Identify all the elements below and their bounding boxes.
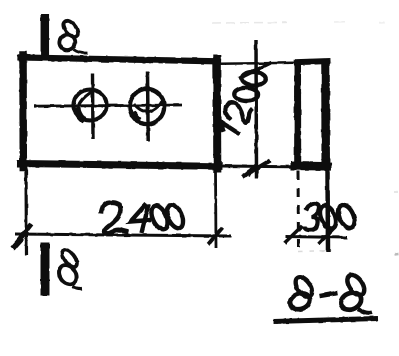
dimension 300: left tick — [285, 226, 303, 244]
hole circle 2 — [130, 89, 164, 124]
wire: side bottom edge — [291, 162, 332, 171]
centerline horizontal through holes — [34, 105, 182, 106]
centerline vertical hole 2 — [146, 72, 150, 142]
centerline vertical hole 1 — [91, 74, 95, 140]
wire: bottom edge — [21, 164, 220, 167]
dimension 300: line — [286, 237, 348, 238]
dimension 300: right tick — [319, 227, 336, 245]
scan noise above section label — [298, 192, 399, 255]
wire: top edge — [21, 58, 219, 62]
section cut mark bottom: label 8 — [55, 247, 82, 289]
dimension 1200: bottom tick — [242, 161, 270, 178]
dimension 1200: value label "1200" rotated — [215, 63, 271, 140]
wire: side right edge — [321, 59, 330, 164]
dimension 1200: line — [254, 40, 258, 179]
wire: left edge — [19, 55, 27, 168]
section label 8-8: second 8 — [338, 272, 372, 313]
section cut mark top: label 8 — [57, 18, 88, 53]
dimension 1200: bottom tick blob — [248, 166, 257, 175]
dimension 2400: extension left — [24, 170, 28, 256]
dimension 1200: extension top — [219, 63, 294, 64]
dimension 1200: extension bottom — [220, 165, 292, 169]
wire: side left edge — [294, 60, 301, 165]
wire: right edge — [213, 59, 222, 169]
dimension 1200: top tick — [239, 63, 272, 79]
section label underline — [274, 319, 378, 322]
section label 8-8: dash — [320, 293, 338, 296]
dimension 2400: left tick blob — [13, 238, 23, 249]
dimension 2400: right tick — [208, 228, 223, 245]
dimension 2400: left tick — [14, 224, 32, 247]
hole circle 1 — [73, 90, 106, 121]
scan noise top dashes — [212, 22, 385, 23]
dimension 2400: line — [15, 234, 231, 236]
dimension 2400: value label "2400" — [101, 202, 186, 233]
main plate rectangle (plan view) — [21, 55, 220, 169]
dimension 2400: extension right — [214, 171, 217, 248]
wire: side top edge — [294, 61, 331, 62]
section label 8-8: first 8 — [288, 274, 315, 312]
side (section) view rectangle — [291, 59, 332, 166]
section cut mark bottom: bar — [41, 243, 50, 296]
dimension 300: extension left (dashed) — [297, 171, 301, 247]
dimension 300: value label "300" — [305, 203, 358, 231]
dimension 300: extension right — [325, 170, 330, 252]
section cut mark top: bar — [41, 14, 50, 55]
